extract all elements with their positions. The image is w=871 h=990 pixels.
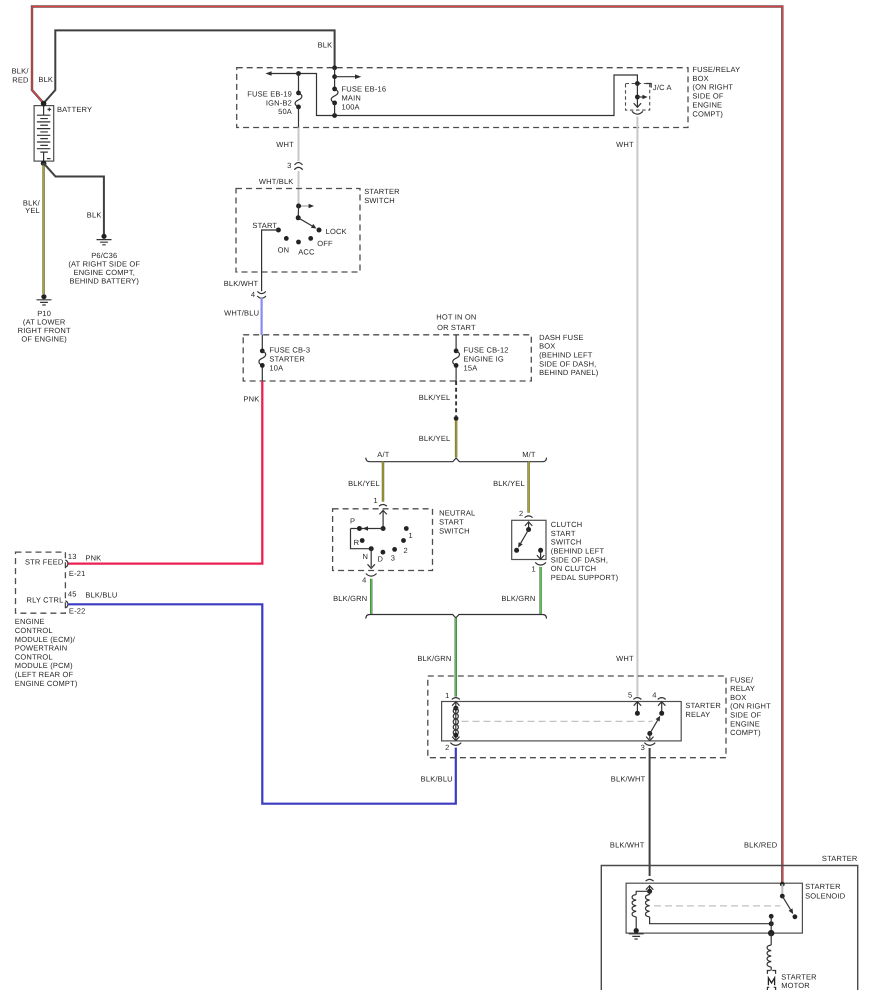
svg-text:BLK/GRN: BLK/GRN (333, 594, 367, 603)
svg-text:START: START (551, 529, 576, 538)
svg-text:3: 3 (641, 743, 645, 752)
svg-text:45: 45 (68, 589, 77, 598)
relay pin 4 connector (658, 698, 666, 700)
solenoid mechanical link (dashed) (654, 905, 781, 907)
node main feed entering box (332, 65, 337, 70)
svg-text:ENGINE: ENGINE (692, 101, 722, 110)
relay pin 3 connector (644, 743, 655, 746)
svg-text:OFF: OFF (317, 239, 333, 248)
solenoid input pin arrow (646, 886, 653, 894)
svg-text:BOX: BOX (692, 74, 708, 83)
svg-text:CONTROL: CONTROL (15, 626, 53, 635)
wire BLK/YEL below fuse CB-12 (dashed section) (455, 381, 457, 416)
node battery negative (41, 160, 47, 166)
svg-text:STARTER: STARTER (822, 854, 858, 863)
ground P10 (37, 294, 52, 305)
svg-text:MODULE (PCM): MODULE (PCM) (15, 661, 73, 670)
relay pin 5 connector (633, 698, 641, 700)
node EB-16 bottom junction (332, 113, 337, 118)
svg-text:WHT/BLK: WHT/BLK (259, 177, 294, 186)
wire BLK/YEL battery negative to ground P10 (42, 163, 44, 294)
fuse/relay box (engine compartment, top) (237, 68, 688, 128)
neutral start switch internals (351, 510, 409, 568)
svg-text:STR FEED: STR FEED (25, 558, 64, 567)
svg-text:POWERTRAIN: POWERTRAIN (15, 644, 68, 653)
wire BLK/WHT from START contact to connector 4 (262, 230, 279, 291)
starter motor field winding (767, 933, 771, 970)
relay pin 2 connector (450, 743, 461, 746)
wire BLK battery negative to ground P6/C36 (44, 163, 104, 234)
svg-text:SIDE OF DASH,: SIDE OF DASH, (551, 555, 608, 564)
relay pin 5 contact (634, 702, 641, 716)
node EB-19 top junction (296, 71, 301, 76)
svg-text:BLK: BLK (38, 75, 53, 84)
connector half-circle STR FEED pin 13 (65, 560, 67, 567)
wire BLK/BLU from ECM RLY CTRL to starter relay pin 2 (68, 604, 456, 803)
svg-text:BLK/: BLK/ (12, 67, 30, 76)
node coil return junction (769, 921, 774, 926)
svg-text:OR START: OR START (437, 323, 476, 332)
svg-text:WHT/BLU: WHT/BLU (224, 309, 259, 318)
svg-text:BLK/WHT: BLK/WHT (610, 841, 645, 850)
svg-text:E-21: E-21 (69, 569, 86, 578)
svg-text:BLK/RED: BLK/RED (744, 841, 778, 850)
svg-text:SWITCH: SWITCH (551, 538, 582, 547)
connector 1 at neutral start switch (379, 504, 387, 506)
arrow to other circuits (left) (265, 71, 271, 76)
svg-text:N: N (363, 552, 369, 561)
svg-text:STARTER: STARTER (805, 882, 841, 891)
svg-text:FUSE CB-3: FUSE CB-3 (269, 345, 310, 354)
svg-text:R: R (354, 538, 360, 547)
svg-text:(ON RIGHT: (ON RIGHT (730, 702, 771, 711)
svg-text:BLK/YEL: BLK/YEL (419, 434, 451, 443)
solenoid switch input stub (781, 884, 783, 896)
svg-text:BLK/GRN: BLK/GRN (417, 654, 451, 663)
svg-text:PEDAL SUPPORT): PEDAL SUPPORT) (551, 573, 619, 582)
connector 4 below neutral start switch (366, 574, 377, 577)
svg-text:WHT: WHT (276, 140, 294, 149)
ground P6/C36 (97, 234, 112, 245)
main feed stub to fuse EB-16 (334, 68, 336, 89)
starter motor (767, 971, 775, 990)
svg-text:RLY CTRL: RLY CTRL (26, 596, 63, 605)
node starter motor feed on solenoid case (768, 930, 774, 936)
svg-text:2: 2 (519, 509, 523, 518)
relay pin 3 exit (646, 734, 653, 741)
svg-text:RELAY: RELAY (685, 710, 710, 719)
branch bracket A/T - M/T split (366, 458, 547, 462)
svg-text:(BEHIND LEFT: (BEHIND LEFT (539, 351, 593, 360)
ground inside starter solenoid (629, 928, 644, 939)
svg-text:HOT IN ON: HOT IN ON (436, 313, 476, 322)
svg-text:SIDE OF DASH,: SIDE OF DASH, (539, 359, 596, 368)
svg-text:MAIN: MAIN (342, 94, 361, 103)
svg-text:2: 2 (404, 546, 408, 555)
svg-text:FUSE EB-16: FUSE EB-16 (342, 85, 387, 94)
svg-text:FUSE EB-19: FUSE EB-19 (247, 90, 292, 99)
svg-text:15A: 15A (464, 364, 478, 373)
svg-text:BLK/YEL: BLK/YEL (419, 393, 451, 402)
wire WHT from J/C A to starter relay pin 5 (636, 117, 638, 697)
svg-text:SOLENOID: SOLENOID (805, 891, 846, 900)
svg-text:START: START (252, 221, 277, 230)
svg-text:13: 13 (68, 552, 77, 561)
dash fuse box (243, 335, 531, 381)
svg-text:PNK: PNK (243, 394, 259, 403)
svg-text:BLK: BLK (87, 211, 102, 220)
connector half-circle RLY CTRL pin 45 (65, 601, 67, 608)
join bracket merging A/T and M/T circuits (366, 615, 547, 619)
svg-text:OF ENGINE): OF ENGINE) (21, 334, 67, 343)
svg-text:(LEFT REAR OF: (LEFT REAR OF (15, 670, 74, 679)
svg-text:BLK/BLU: BLK/BLU (85, 591, 117, 600)
wire BLK/YEL M/T branch to connector 2 (527, 462, 529, 513)
svg-text:STARTER: STARTER (269, 355, 305, 364)
svg-text:BEHIND BATTERY): BEHIND BATTERY) (70, 276, 140, 285)
svg-text:50A: 50A (278, 107, 292, 116)
svg-text:ENGINE IG: ENGINE IG (464, 355, 504, 364)
svg-text:ENGINE COMPT): ENGINE COMPT) (15, 679, 78, 688)
svg-text:MODULE (ECM)/: MODULE (ECM)/ (15, 635, 76, 644)
svg-text:BEHIND PANEL): BEHIND PANEL) (539, 368, 599, 377)
node battery positive (41, 101, 47, 107)
svg-text:4: 4 (362, 576, 366, 585)
svg-text:RELAY: RELAY (730, 684, 755, 693)
svg-text:ON: ON (278, 246, 290, 255)
fuse CB-3 STARTER 10A (259, 335, 266, 381)
svg-text:3: 3 (287, 161, 291, 170)
solenoid input connector (646, 879, 654, 881)
svg-text:SIDE OF: SIDE OF (692, 92, 724, 101)
svg-text:10A: 10A (269, 364, 283, 373)
fuse EB-19 IGN-B2 50A (295, 91, 302, 128)
svg-text:1: 1 (409, 531, 413, 540)
wire BLK battery positive feed to fuse/relay box (44, 30, 335, 103)
svg-text:M/T: M/T (522, 450, 536, 459)
relay pin 4 contact (658, 702, 665, 716)
wire BLK/RED battery positive feed (top and right side to starter solenoid) (32, 7, 782, 884)
wire BLK/YEL A/T branch to connector 1 (382, 462, 384, 502)
fuse EB-16 MAIN 100A (331, 87, 338, 116)
connector 2 at clutch start switch (525, 516, 533, 518)
svg-text:NEUTRAL: NEUTRAL (439, 509, 475, 518)
wire BLK/GRN join bracket to starter relay pin 1 (455, 618, 457, 697)
wire PNK from fuse CB-3 to ECM STR FEED (68, 381, 263, 564)
svg-text:FUSE/: FUSE/ (730, 675, 754, 684)
svg-text:WHT: WHT (616, 654, 634, 663)
svg-text:STARTER: STARTER (781, 972, 817, 981)
svg-text:SWITCH: SWITCH (364, 196, 395, 205)
svg-text:BLK/WHT: BLK/WHT (224, 279, 259, 288)
junction connector J/C A (626, 81, 650, 114)
svg-text:BATTERY: BATTERY (57, 105, 92, 114)
svg-text:D: D (378, 554, 384, 563)
svg-text:BLK/WHT: BLK/WHT (611, 775, 646, 784)
wire BLK/GRN from clutch start switch to join bracket (539, 567, 541, 615)
svg-text:ENGINE: ENGINE (730, 719, 760, 728)
svg-text:FUSE CB-12: FUSE CB-12 (464, 345, 509, 354)
svg-text:DASH FUSE: DASH FUSE (539, 333, 584, 342)
wire bus inside fuse/relay box (271, 74, 638, 116)
relay coil between pins 1 and 2 (452, 702, 459, 741)
svg-text:BLK/BLU: BLK/BLU (421, 775, 453, 784)
svg-text:BOX: BOX (730, 693, 746, 702)
wire WHT/BLK connector 3 to starter switch (298, 171, 300, 204)
svg-text:E-22: E-22 (69, 607, 86, 616)
fuse/relay box (lower) (428, 676, 726, 758)
wire BLK/WHT relay pin 3 to starter solenoid (649, 748, 651, 876)
svg-text:CLUTCH: CLUTCH (551, 520, 583, 529)
svg-text:4: 4 (652, 691, 656, 700)
wire WHT from fuse EB-19 to connector 3 (298, 128, 300, 162)
svg-text:STARTER: STARTER (364, 187, 400, 196)
battery (34, 106, 54, 163)
solenoid pull-in and hold-in coils (632, 891, 771, 928)
svg-text:CONTROL: CONTROL (15, 652, 53, 661)
node branch with right arrow (332, 74, 337, 79)
ECM/PCM module box (16, 552, 66, 613)
starter switch rotary contacts and arm (276, 204, 322, 245)
svg-text:LOCK: LOCK (326, 227, 347, 236)
wire WHT/BLU connector 4 to dash fuse box (261, 298, 263, 335)
starter assembly box (601, 866, 857, 990)
svg-text:PNK: PNK (85, 553, 101, 562)
svg-text:COMPT): COMPT) (692, 109, 723, 118)
node BLK/RED entry on solenoid (780, 882, 785, 887)
relay pin 1 connector (452, 698, 460, 700)
svg-text:(ON RIGHT: (ON RIGHT (692, 83, 733, 92)
svg-text:1: 1 (445, 691, 449, 700)
svg-text:BLK/YEL: BLK/YEL (348, 479, 380, 488)
svg-text:100A: 100A (342, 102, 360, 111)
svg-text:SIDE OF: SIDE OF (730, 711, 762, 720)
connector 1 below clutch start switch (535, 562, 546, 565)
label J/C A (646, 84, 651, 88)
svg-text:BLK: BLK (318, 40, 333, 49)
svg-text:RED: RED (12, 75, 29, 84)
svg-text:BLK/GRN: BLK/GRN (501, 594, 535, 603)
neutral start switch (333, 509, 433, 571)
inline connector 3 (294, 163, 302, 170)
svg-text:FUSE/RELAY: FUSE/RELAY (692, 65, 740, 74)
svg-text:5: 5 (628, 691, 632, 700)
svg-text:1: 1 (373, 496, 377, 505)
relay mechanical link (dashed) (462, 720, 653, 722)
svg-text:WHT: WHT (616, 140, 634, 149)
svg-text:MOTOR: MOTOR (781, 981, 810, 990)
svg-text:BOX: BOX (539, 342, 555, 351)
node BLK/YEL junction (454, 416, 459, 421)
svg-text:START: START (439, 518, 464, 527)
starter solenoid (626, 883, 802, 933)
wire BLK/YEL to A/T-M/T branch (455, 421, 457, 458)
svg-text:(BEHIND LEFT: (BEHIND LEFT (551, 547, 605, 556)
svg-text:IGN-B2: IGN-B2 (266, 98, 292, 107)
solenoid switch arm (780, 894, 797, 920)
svg-text:4: 4 (251, 290, 255, 299)
fuse CB-12 ENGINE IG 15A (453, 335, 460, 381)
svg-text:ENGINE: ENGINE (15, 617, 45, 626)
svg-text:STARTER: STARTER (685, 701, 721, 710)
svg-text:COMPT): COMPT) (730, 728, 761, 737)
clutch start switch internals (514, 522, 544, 559)
relay switch arm pin 3 to pin 4 (647, 716, 660, 736)
svg-text:ACC: ACC (298, 248, 315, 257)
svg-text:BLK/YEL: BLK/YEL (493, 479, 525, 488)
starter switch (236, 189, 360, 273)
svg-text:1: 1 (531, 564, 535, 573)
starter relay (442, 702, 682, 741)
solenoid motor contact (769, 914, 774, 933)
svg-text:ON CLUTCH: ON CLUTCH (551, 564, 596, 573)
svg-text:2: 2 (445, 743, 449, 752)
svg-text:SWITCH: SWITCH (439, 526, 470, 535)
inline connector 4 (257, 291, 266, 298)
svg-text:J/C A: J/C A (653, 83, 672, 92)
wire BLK/GRN from neutral start switch to join bracket (370, 579, 372, 615)
svg-text:A/T: A/T (377, 450, 389, 459)
svg-text:3: 3 (391, 553, 395, 562)
svg-text:P: P (350, 516, 355, 525)
clutch start switch (512, 520, 546, 559)
svg-text:YEL: YEL (25, 206, 40, 215)
